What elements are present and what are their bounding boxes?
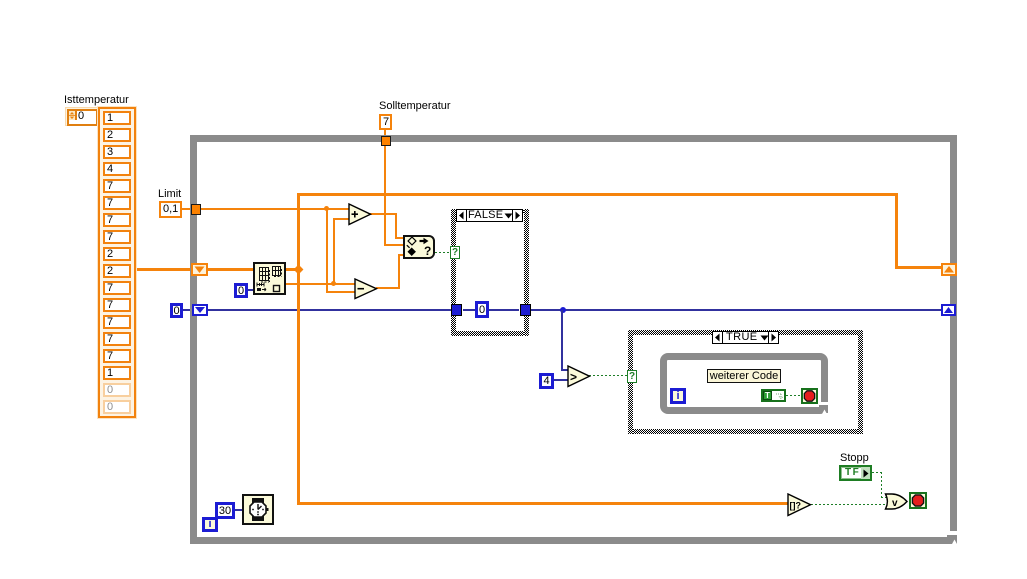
case structure TRUE xyxy=(628,330,863,335)
constant 0 blue shift register init xyxy=(170,303,183,318)
wire orange array vertical main xyxy=(297,194,300,505)
inner loop corner arrow xyxy=(820,402,828,406)
tunnel blue left FALSE xyxy=(451,304,462,316)
terminal i main loop xyxy=(202,517,218,532)
array element 17 greyed 0 xyxy=(103,400,131,414)
constant 4 blue xyxy=(539,373,554,389)
wire blue init xyxy=(183,309,192,311)
control Stopp TF xyxy=(839,465,872,481)
tunnel Limit xyxy=(191,204,201,215)
wire orange array from control to loop xyxy=(135,268,192,271)
shift register left blue xyxy=(192,304,208,316)
terminal stop button inner xyxy=(801,388,818,404)
wire element output xyxy=(286,283,355,285)
array element 8 value 2 xyxy=(103,247,131,261)
while loop corner arrow xyxy=(950,531,957,536)
constant 0 blue index xyxy=(234,283,248,298)
function Wait ms xyxy=(242,494,274,525)
array element 0 value 1 xyxy=(103,111,131,125)
function Subtract xyxy=(354,278,378,300)
terminal i inner loop xyxy=(670,388,686,404)
array element 3 value 4 xyxy=(103,162,131,176)
svg-text:v: v xyxy=(892,498,898,509)
svg-text:>: > xyxy=(570,370,577,384)
wire orange array right vertical xyxy=(895,193,898,269)
function Add xyxy=(348,203,372,226)
wire element vertical to add xyxy=(333,219,335,283)
svg-text:[]?: []? xyxy=(790,501,802,511)
label Solltemperatur xyxy=(379,101,451,112)
wire blue main left xyxy=(208,309,451,311)
wire orange array bottom horizontal xyxy=(297,502,788,505)
array Isttemperatur xyxy=(98,107,136,418)
tunnel boolean ? on FALSE case xyxy=(450,246,460,259)
array element 1 value 2 xyxy=(103,128,131,142)
label Isttemperatur xyxy=(64,95,129,106)
array element 7 value 7 xyxy=(103,230,131,244)
case selector FALSE xyxy=(456,209,523,222)
wire orange array top horizontal xyxy=(297,193,898,196)
tunnel blue right FALSE xyxy=(520,304,531,316)
boolean constant T inner loop xyxy=(761,389,786,402)
array element 2 value 3 xyxy=(103,145,131,159)
function In Range and Coerce xyxy=(403,235,435,259)
wire boolean empty to or xyxy=(811,504,887,505)
label Stopp xyxy=(840,453,869,464)
constant Limit 0,1 xyxy=(159,201,182,218)
junction Limit xyxy=(324,206,329,211)
wire blue main right xyxy=(531,309,941,311)
wire Solltemperatur vertical xyxy=(384,130,386,246)
wire add output xyxy=(370,213,397,215)
array element 11 value 7 xyxy=(103,298,131,312)
junction element xyxy=(331,281,336,286)
wire Limit vertical to subtract xyxy=(326,208,328,293)
array index control xyxy=(65,107,98,126)
array element 15 value 1 xyxy=(103,366,131,380)
wire orange array to junction xyxy=(208,268,302,271)
constant 30 blue xyxy=(215,502,235,519)
array element 4 value 7 xyxy=(103,179,131,193)
array element 13 value 7 xyxy=(103,332,131,346)
array element 9 value 2 xyxy=(103,264,131,278)
wire boolean Stopp xyxy=(872,472,882,473)
wire 30 to wait xyxy=(235,509,242,511)
wire 4 to greater xyxy=(554,379,569,381)
array element 12 value 7 xyxy=(103,315,131,329)
tunnel Solltemperatur xyxy=(381,136,391,146)
function Index Array xyxy=(253,262,286,295)
wire boolean greater to TRUE case xyxy=(589,375,628,376)
wire boolean to inner stop xyxy=(786,395,802,396)
wire index 0 to Index Array xyxy=(248,289,254,291)
function Greater? xyxy=(567,365,591,388)
case structure FALSE xyxy=(451,209,529,214)
label weiterer Code xyxy=(707,369,781,383)
wire boolean in-range to case xyxy=(435,252,451,253)
wire blue down to greater xyxy=(561,310,563,371)
shift register left orange xyxy=(191,263,208,276)
array element 10 value 7 xyxy=(103,281,131,295)
function Or xyxy=(884,493,909,510)
shift register right blue xyxy=(941,304,956,316)
array element 6 value 7 xyxy=(103,213,131,227)
array element 16 greyed 0 xyxy=(103,383,131,397)
array element 5 value 7 xyxy=(103,196,131,210)
while loop border xyxy=(190,135,957,544)
constant 0 in FALSE case xyxy=(475,301,489,318)
wire Solltemperatur to in-range xyxy=(385,244,403,246)
shift register right orange xyxy=(941,263,957,276)
junction array wire xyxy=(294,265,304,275)
wire orange array to right shift register xyxy=(895,266,941,269)
constant Solltemperatur 7 xyxy=(379,114,392,130)
wire subtract output xyxy=(376,287,400,289)
terminal stop button main xyxy=(909,492,927,509)
inner while loop xyxy=(660,353,828,414)
wire blue inside FALSE xyxy=(463,309,475,311)
array element 14 value 7 xyxy=(103,349,131,363)
label Limit xyxy=(158,189,181,200)
case selector TRUE xyxy=(712,331,779,344)
junction blue xyxy=(560,307,566,313)
wire Limit xyxy=(182,208,191,210)
tunnel boolean ? on TRUE case xyxy=(627,370,637,383)
function Empty Array? xyxy=(787,493,812,517)
